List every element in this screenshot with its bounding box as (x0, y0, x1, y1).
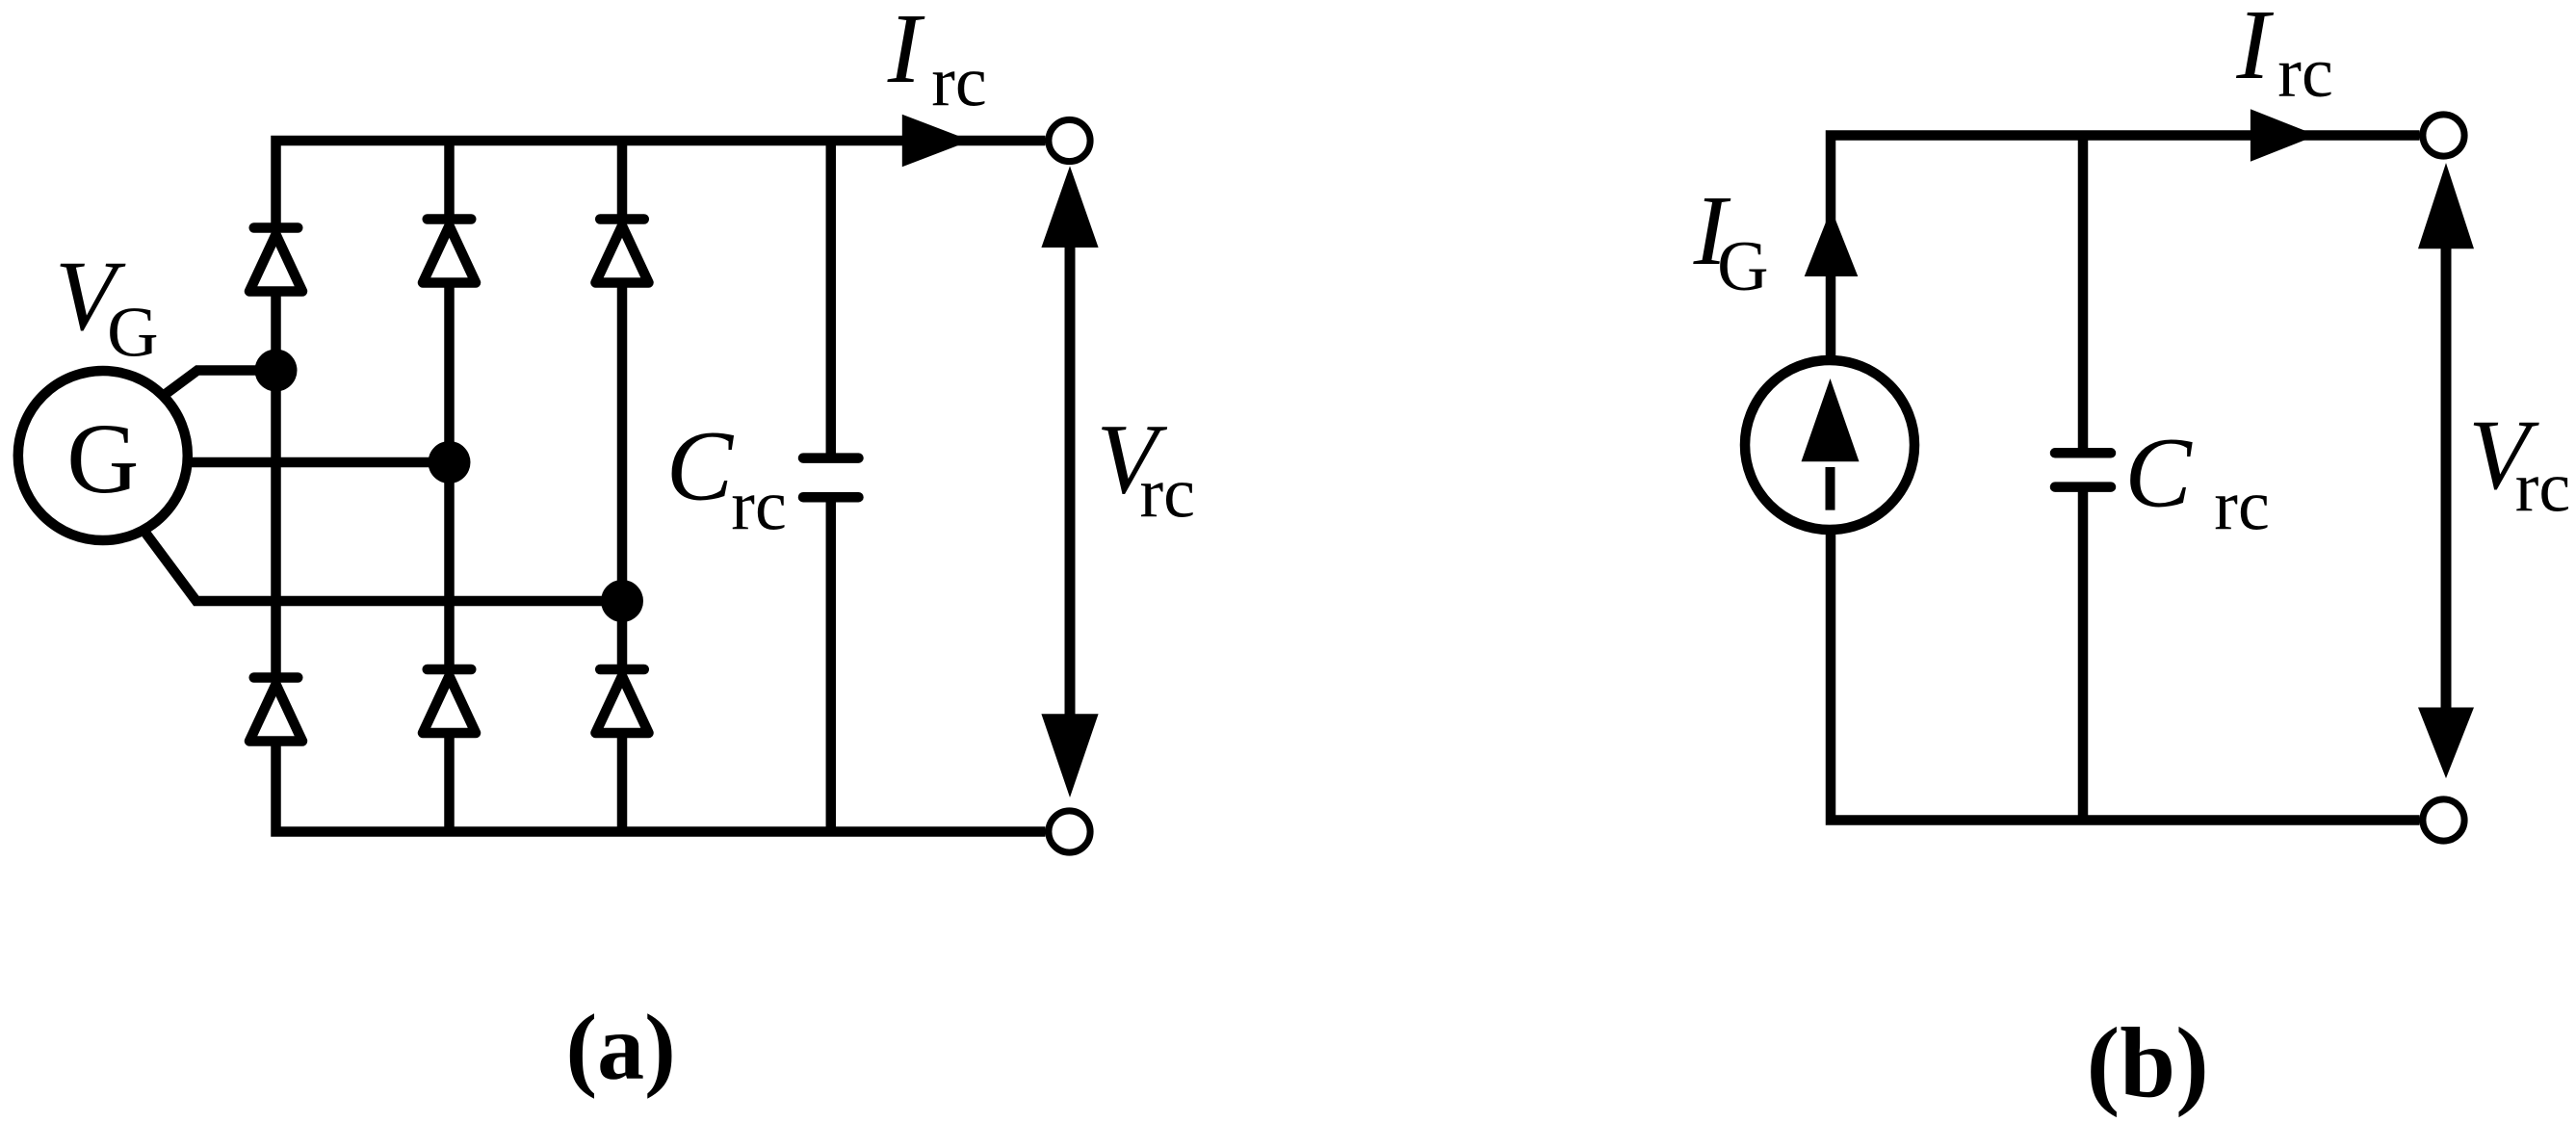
svg-text:rc: rc (1140, 455, 1196, 534)
svg-text:C: C (2124, 418, 2193, 529)
svg-text:C: C (666, 411, 735, 522)
svg-text:I: I (2235, 0, 2274, 100)
svg-text:rc: rc (2214, 467, 2270, 546)
svg-text:G: G (107, 294, 158, 373)
svg-text:(b): (b) (2087, 1007, 2209, 1118)
svg-text:rc: rc (731, 467, 787, 546)
svg-text:I: I (887, 0, 925, 104)
svg-text:G: G (66, 404, 139, 514)
svg-text:rc: rc (2277, 34, 2333, 113)
svg-text:G: G (1717, 227, 1768, 306)
svg-text:rc: rc (931, 42, 986, 121)
svg-text:rc: rc (2515, 448, 2571, 527)
svg-text:(a): (a) (566, 996, 676, 1100)
